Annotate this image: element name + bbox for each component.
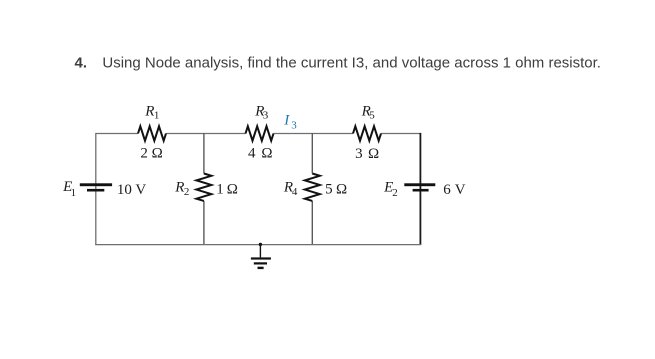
svg-text:2: 2: [392, 187, 398, 199]
label R2: [174, 179, 189, 197]
svg-text:4: 4: [292, 186, 298, 198]
label R5: [361, 103, 376, 121]
svg-text:3: 3: [263, 110, 269, 122]
label R1: [144, 103, 159, 121]
svg-text:4 Ω: 4 Ω: [248, 146, 273, 162]
wire: bottom rail: [95, 244, 421, 246]
svg-text:3: 3: [291, 119, 297, 131]
wire: right branch (corner through E2 down to bottom wire): [419, 133, 421, 245]
svg-text:1: 1: [154, 110, 160, 122]
label R3: [254, 103, 268, 121]
wire: top-right segment R5 right terminal to right corner: [381, 133, 421, 135]
svg-text:4.: 4.: [75, 55, 88, 72]
svg-text:I: I: [283, 113, 290, 129]
wire: R4 branch bottom (R4 bottom terminal down to bottom wire): [311, 201, 313, 245]
label E1: [62, 179, 76, 199]
svg-text:10 V: 10 V: [117, 182, 146, 198]
wire: R4 branch top (node C down to R4 top terminal): [311, 133, 313, 174]
svg-text:3 Ω: 3 Ω: [355, 146, 379, 162]
wire: top segment R1 right terminal to R3 left terminal (through node B): [166, 133, 246, 135]
resistor R5 (zigzag, 3 ohm, top right): [353, 126, 381, 140]
svg-text:1 Ω: 1 Ω: [216, 182, 238, 198]
svg-text:1: 1: [71, 187, 77, 199]
wire: R2 branch bottom (R2 bottom terminal down to bottom wire): [203, 201, 205, 245]
wire: top-left segment (node A to R1 left terminal): [96, 133, 138, 135]
wire: left branch (corner through E1 down to bottom wire): [95, 133, 97, 245]
label R4: [283, 179, 298, 197]
svg-text:5: 5: [369, 110, 375, 122]
resistor R4 (vertical zigzag, 5 ohm): [305, 174, 320, 201]
svg-text:5 Ω: 5 Ω: [325, 182, 347, 198]
resistor R3 (zigzag, 4 ohm, top middle): [246, 126, 274, 140]
current label I3 (blue): [283, 113, 297, 132]
resistor R1 (zigzag, 2 ohm, top left): [138, 126, 166, 140]
label E2: [383, 180, 398, 199]
wire: top segment R3 right terminal to R5 left terminal (through node C): [274, 133, 354, 135]
wire: R2 branch top (node B down to R2 top terminal): [203, 133, 205, 174]
problem statement text: [75, 55, 601, 72]
battery E2 (6 V source, right branch): [404, 183, 435, 191]
svg-text:2: 2: [184, 186, 190, 198]
ground symbol: [251, 245, 271, 270]
svg-text:6 V: 6 V: [443, 182, 465, 198]
junction dot (ground node on bottom rail): [259, 243, 262, 246]
svg-text:Using Node analysis, find the: Using Node analysis, find the current I3…: [102, 55, 601, 72]
svg-text:2 Ω: 2 Ω: [140, 146, 162, 162]
battery E1 (10 V source, left branch): [80, 183, 112, 191]
resistor R2 (vertical zigzag, 1 ohm): [196, 174, 211, 201]
